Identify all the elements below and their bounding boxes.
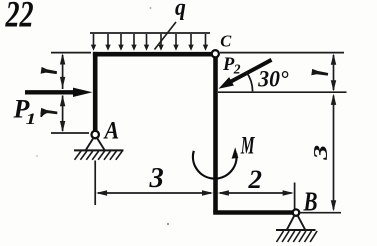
svg-text:22: 22 bbox=[5, 0, 34, 36]
svg-text:B: B bbox=[303, 187, 318, 217]
svg-text:q: q bbox=[175, 0, 186, 20]
svg-text:M: M bbox=[240, 132, 256, 160]
svg-text:1: 1 bbox=[26, 111, 37, 129]
svg-text:30°: 30° bbox=[257, 66, 288, 92]
svg-text:C: C bbox=[220, 32, 232, 51]
svg-text:3: 3 bbox=[310, 145, 332, 161]
svg-text:2: 2 bbox=[247, 164, 262, 194]
svg-text:A: A bbox=[103, 117, 120, 145]
svg-text:2: 2 bbox=[233, 62, 241, 77]
svg-text:3: 3 bbox=[148, 163, 163, 194]
